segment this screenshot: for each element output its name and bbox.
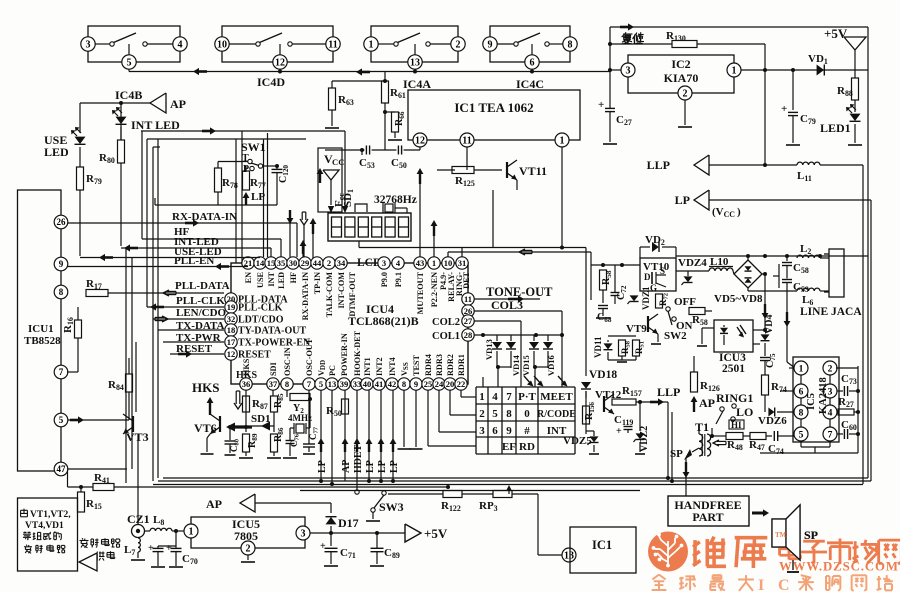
svg-text:VT11: VT11	[519, 164, 547, 178]
svg-text:AP: AP	[206, 497, 222, 511]
svg-text:ICU1: ICU1	[28, 323, 54, 335]
svg-text:13: 13	[564, 551, 574, 562]
svg-text:3: 3	[86, 40, 91, 51]
svg-text:TP-IN: TP-IN	[313, 272, 322, 294]
svg-text:D17: D17	[338, 516, 359, 530]
svg-text:VT6: VT6	[194, 421, 217, 435]
svg-text:): )	[737, 206, 741, 218]
svg-text:7: 7	[506, 391, 512, 403]
svg-text:LLP: LLP	[647, 158, 670, 172]
svg-text:VT3: VT3	[126, 430, 149, 444]
svg-text:11: 11	[464, 294, 472, 304]
svg-text:8: 8	[799, 408, 804, 418]
svg-text:1: 1	[189, 527, 194, 538]
svg-text:VDZ4: VDZ4	[678, 257, 707, 269]
svg-text:12: 12	[227, 349, 236, 359]
svg-text:RX-DATA-IN: RX-DATA-IN	[301, 272, 310, 320]
svg-text:18: 18	[227, 325, 236, 335]
svg-text:VD5~VD8: VD5~VD8	[714, 293, 763, 305]
svg-text:OFF: OFF	[674, 296, 696, 308]
svg-text:+: +	[166, 543, 172, 554]
svg-text:8: 8	[568, 40, 573, 51]
svg-text:5: 5	[799, 430, 804, 440]
svg-text:20: 20	[446, 379, 455, 389]
svg-text:11: 11	[328, 40, 337, 51]
svg-text:37: 37	[269, 379, 278, 389]
svg-text:42: 42	[388, 379, 397, 389]
svg-text:KIA70: KIA70	[664, 71, 699, 85]
svg-text:CC: CC	[332, 157, 344, 167]
svg-text:AP: AP	[341, 460, 352, 473]
svg-text:9: 9	[506, 425, 512, 437]
svg-text:6: 6	[530, 58, 535, 69]
svg-text:LED: LED	[44, 145, 69, 159]
svg-text:33: 33	[353, 379, 362, 389]
svg-text:LP: LP	[389, 460, 400, 473]
svg-text:LP: LP	[317, 460, 328, 473]
svg-text:TM: TM	[775, 531, 787, 539]
svg-text:HKS: HKS	[236, 370, 258, 381]
svg-text:5: 5	[127, 58, 132, 69]
svg-text:27: 27	[464, 316, 473, 326]
svg-text:LDT/CDO: LDT/CDO	[238, 315, 284, 326]
svg-text:6: 6	[799, 387, 804, 397]
svg-text:LP: LP	[365, 460, 376, 473]
svg-text:COL1: COL1	[432, 331, 460, 342]
svg-text:VT4,VD1: VT4,VD1	[25, 521, 64, 531]
svg-text:VDZ6: VDZ6	[758, 415, 787, 427]
svg-text:VSS: VSS	[400, 362, 410, 376]
svg-text:OSC-OUT: OSC-OUT	[305, 338, 314, 376]
svg-text:31: 31	[458, 258, 467, 268]
svg-text:OSC-IN: OSC-IN	[283, 347, 292, 376]
svg-text:10: 10	[444, 258, 453, 268]
svg-text:PLL-EN: PLL-EN	[174, 255, 214, 267]
svg-text:SW2: SW2	[664, 330, 687, 342]
svg-text:2: 2	[479, 408, 485, 420]
svg-text:INT: INT	[267, 271, 276, 286]
svg-text:SP: SP	[804, 528, 818, 542]
svg-text:INT4: INT4	[388, 357, 397, 376]
svg-text:IC4D: IC4D	[257, 75, 285, 89]
svg-text:PLL-DATA: PLL-DATA	[175, 280, 230, 292]
svg-text:DET: DET	[462, 271, 471, 288]
svg-text:INT-COM: INT-COM	[337, 272, 346, 309]
svg-text:+: +	[148, 543, 154, 554]
svg-text:COL3: COL3	[491, 298, 523, 312]
svg-text:3: 3	[626, 66, 631, 77]
svg-text:39: 39	[340, 379, 349, 389]
svg-text:AP: AP	[170, 97, 186, 111]
svg-text:30: 30	[289, 258, 298, 268]
svg-text:T1: T1	[695, 420, 709, 434]
svg-text:44: 44	[313, 258, 322, 268]
svg-text:13: 13	[410, 58, 420, 69]
svg-text:TB8528: TB8528	[24, 335, 61, 347]
svg-text:+: +	[616, 426, 622, 437]
svg-text:I: I	[758, 577, 764, 592]
svg-text:47: 47	[57, 464, 67, 474]
svg-text:10: 10	[217, 40, 227, 51]
svg-text:1: 1	[369, 40, 374, 51]
svg-text:TY-DATA-OUT: TY-DATA-OUT	[238, 326, 306, 337]
svg-text:VDZ1: VDZ1	[641, 286, 651, 310]
svg-text:SDI: SDI	[269, 362, 278, 376]
svg-text:RING1: RING1	[716, 391, 753, 405]
svg-text:USE: USE	[256, 271, 265, 287]
svg-text:1: 1	[479, 391, 485, 403]
svg-text:9: 9	[59, 259, 64, 269]
svg-text:#: #	[524, 425, 530, 437]
svg-text:VD15: VD15	[521, 355, 531, 376]
svg-text:9: 9	[488, 40, 493, 51]
svg-text:1: 1	[432, 258, 436, 268]
svg-text:14: 14	[256, 258, 265, 268]
svg-text:RDR1: RDR1	[457, 354, 466, 376]
svg-text:6: 6	[492, 425, 498, 437]
svg-text:PART: PART	[692, 510, 723, 524]
svg-text:P9.1: P9.1	[394, 272, 403, 287]
svg-text:INT1: INT1	[363, 357, 372, 376]
svg-text:43: 43	[416, 258, 425, 268]
svg-text:11: 11	[462, 136, 471, 147]
svg-text:PLL-CLK: PLL-CLK	[176, 295, 225, 307]
svg-text:IC2: IC2	[671, 57, 690, 71]
svg-text:8: 8	[59, 287, 64, 297]
svg-text:5: 5	[492, 408, 498, 420]
svg-text:8: 8	[285, 379, 289, 389]
svg-text:12: 12	[415, 136, 425, 147]
svg-text:2501: 2501	[722, 363, 745, 375]
svg-text:TX-POWER-EN: TX-POWER-EN	[238, 338, 311, 349]
svg-text:2: 2	[246, 544, 251, 555]
svg-text:29: 29	[301, 258, 310, 268]
svg-text:LO: LO	[736, 405, 753, 419]
svg-text:1: 1	[560, 136, 565, 147]
svg-text:TEST: TEST	[412, 355, 421, 376]
svg-text:1: 1	[799, 364, 804, 374]
svg-text:INT LED: INT LED	[131, 118, 180, 132]
svg-text:G: G	[650, 283, 657, 293]
svg-text:3: 3	[479, 425, 485, 437]
svg-text:SW1: SW1	[241, 140, 266, 154]
svg-text:LLP: LLP	[657, 385, 680, 399]
svg-text:TALK-COM: TALK-COM	[325, 272, 334, 318]
svg-text:5: 5	[319, 379, 323, 389]
svg-text:DTMF-OUT: DTMF-OUT	[348, 271, 357, 316]
svg-text:+5V: +5V	[824, 26, 848, 41]
svg-text:EF: EF	[502, 441, 516, 453]
svg-text:IC4A: IC4A	[403, 77, 431, 91]
svg-text:RD: RD	[519, 441, 535, 453]
svg-text:IC5: IC5	[806, 393, 817, 410]
svg-text:P·T: P·T	[518, 391, 536, 403]
svg-text:VT9: VT9	[626, 323, 647, 335]
svg-text:HF: HF	[289, 272, 298, 283]
svg-text:9: 9	[414, 379, 418, 389]
svg-text:0: 0	[524, 408, 530, 420]
svg-text:34: 34	[337, 258, 346, 268]
svg-text:C: C	[778, 577, 790, 592]
svg-text:VD14: VD14	[511, 354, 521, 376]
svg-text:RX-DATA-IN: RX-DATA-IN	[172, 211, 237, 223]
svg-text:VDZ5: VDZ5	[563, 435, 592, 447]
svg-text:VD11: VD11	[593, 336, 603, 358]
svg-text:VT1,VT2,: VT1,VT2,	[30, 510, 71, 520]
svg-text:2: 2	[683, 89, 688, 100]
svg-text:+5V: +5V	[424, 526, 448, 541]
svg-text:VD13: VD13	[484, 339, 494, 360]
svg-text:LINE JACA: LINE JACA	[800, 306, 862, 318]
svg-text:MUTEOUT: MUTEOUT	[416, 271, 425, 314]
svg-text:COL2: COL2	[432, 317, 460, 328]
svg-text:3: 3	[301, 529, 306, 540]
svg-text:LEN/CDO: LEN/CDO	[176, 307, 227, 319]
svg-text:HDET: HDET	[353, 444, 364, 473]
svg-text:19: 19	[227, 302, 236, 312]
svg-text:3: 3	[382, 258, 386, 268]
svg-text:SP: SP	[670, 448, 683, 460]
svg-text:LED: LED	[277, 272, 286, 289]
svg-text:RDR2: RDR2	[446, 354, 455, 376]
svg-text:IC1 TEA 1062: IC1 TEA 1062	[454, 100, 533, 115]
svg-text:+: +	[781, 103, 787, 115]
svg-text:+: +	[598, 99, 604, 111]
svg-text:PC: PC	[328, 365, 337, 376]
svg-text:12: 12	[275, 58, 285, 69]
svg-text:D: D	[644, 272, 651, 282]
svg-text:INT2: INT2	[375, 357, 384, 376]
svg-text:TCL868(21)B: TCL868(21)B	[348, 314, 419, 328]
svg-text:MEET: MEET	[540, 391, 573, 403]
svg-text:HI: HI	[731, 420, 742, 430]
svg-text:VDD: VDD	[317, 360, 327, 376]
svg-text:28: 28	[464, 330, 473, 340]
svg-text:+: +	[320, 541, 326, 552]
svg-text:40: 40	[363, 379, 372, 389]
svg-text:26: 26	[57, 217, 67, 227]
svg-text:P9.0: P9.0	[380, 272, 389, 287]
svg-text:2: 2	[327, 258, 331, 268]
svg-text:POWER-IN: POWER-IN	[340, 333, 349, 376]
svg-text:EN: EN	[244, 272, 253, 283]
svg-text:HOOK-DET: HOOK-DET	[353, 330, 362, 376]
svg-text:IC4C: IC4C	[516, 77, 544, 91]
svg-text:RDR4: RDR4	[424, 354, 433, 376]
svg-text:7: 7	[59, 367, 64, 377]
svg-text:LP: LP	[675, 193, 690, 207]
svg-text:IC4B: IC4B	[115, 88, 142, 102]
svg-text:PLL-CLK: PLL-CLK	[238, 303, 283, 314]
svg-text:IC1: IC1	[592, 538, 612, 552]
svg-text:4: 4	[178, 40, 183, 51]
svg-text:24: 24	[435, 379, 444, 389]
svg-text:5: 5	[59, 415, 64, 425]
svg-text:22: 22	[457, 379, 466, 389]
svg-text:17: 17	[227, 337, 236, 347]
svg-text:1: 1	[732, 66, 737, 77]
svg-text:VD18: VD18	[589, 369, 617, 381]
svg-text:VD16: VD16	[546, 355, 556, 376]
svg-text:SW3: SW3	[379, 500, 404, 514]
svg-text:R/CODE: R/CODE	[537, 409, 576, 420]
svg-text:KA2418: KA2418	[818, 377, 829, 414]
svg-text:2: 2	[456, 40, 461, 51]
svg-text:4: 4	[492, 391, 498, 403]
svg-text:32: 32	[227, 314, 236, 324]
svg-text:13: 13	[328, 379, 337, 389]
svg-text:P2.2-NEN: P2.2-NEN	[430, 272, 439, 307]
svg-text:8: 8	[506, 408, 512, 420]
svg-text:LED1: LED1	[820, 121, 851, 135]
svg-text:25: 25	[424, 379, 433, 389]
svg-text:S: S	[660, 266, 665, 276]
svg-text:35: 35	[277, 258, 286, 268]
svg-text:7: 7	[828, 430, 833, 440]
svg-text:HKS: HKS	[192, 380, 219, 395]
svg-text:VDZ2: VDZ2	[639, 426, 650, 452]
svg-text:8: 8	[402, 379, 406, 389]
svg-text:2: 2	[828, 364, 833, 374]
svg-text:RDR3: RDR3	[435, 354, 444, 376]
svg-text:41: 41	[375, 379, 384, 389]
svg-text:15: 15	[267, 258, 276, 268]
svg-text:LP: LP	[377, 460, 388, 473]
svg-text:AP: AP	[699, 396, 715, 410]
